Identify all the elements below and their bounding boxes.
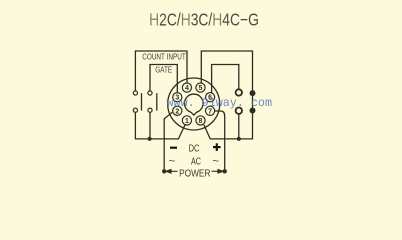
svg-text:5: 5 bbox=[199, 85, 203, 92]
svg-text:POWER: POWER bbox=[179, 169, 210, 180]
svg-text:~: ~ bbox=[212, 156, 218, 168]
svg-text:4: 4 bbox=[185, 85, 189, 92]
svg-text:www. 91way. com: www. 91way. com bbox=[167, 96, 273, 110]
svg-text:~: ~ bbox=[169, 156, 175, 168]
svg-text:H2C/H3C/H4C−G: H2C/H3C/H4C−G bbox=[149, 10, 259, 30]
svg-text:8: 8 bbox=[199, 118, 203, 125]
svg-text:COUNT INPUT: COUNT INPUT bbox=[142, 52, 186, 61]
svg-text:1: 1 bbox=[185, 118, 189, 125]
svg-text:AC: AC bbox=[191, 156, 201, 167]
svg-text:DC: DC bbox=[189, 143, 200, 154]
svg-text:GATE: GATE bbox=[155, 66, 172, 75]
